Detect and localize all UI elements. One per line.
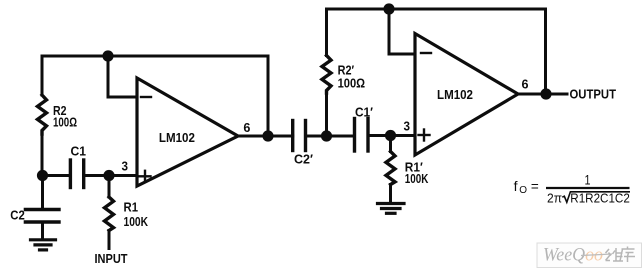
wire R1' to ground bbox=[389, 185, 392, 204]
svg-text:100K: 100K bbox=[405, 171, 429, 186]
wire inverting input U1 bbox=[108, 56, 137, 97]
capacitor C2 bbox=[25, 210, 59, 223]
U2 minus symbol bbox=[421, 52, 431, 54]
svg-text:3: 3 bbox=[404, 119, 411, 134]
node junction H output bbox=[540, 88, 551, 99]
wire feedback down stage 1 bbox=[267, 56, 270, 136]
wire C2 to ground bbox=[41, 222, 44, 239]
watermark strike line bbox=[581, 254, 612, 256]
svg-text:C1′: C1′ bbox=[355, 105, 373, 120]
resistor R2 bbox=[38, 95, 47, 134]
node junction B pin3 stage1 bbox=[103, 170, 114, 181]
wire C1 left bbox=[43, 174, 71, 177]
wire inverting input U2 bbox=[389, 9, 415, 54]
node junction E C2'-C1' bbox=[321, 130, 332, 141]
svg-text:3: 3 bbox=[122, 159, 129, 174]
wire left rail upper bbox=[41, 56, 44, 95]
wire feedback down stage 2 bbox=[544, 9, 547, 94]
node junction A top stage1 bbox=[102, 50, 113, 61]
wire top feedback stage 1 bbox=[42, 55, 268, 58]
svg-text:INPUT: INPUT bbox=[95, 251, 128, 266]
wire U1 output bbox=[238, 135, 293, 138]
svg-text:O: O bbox=[519, 185, 527, 196]
svg-text:100Ω: 100Ω bbox=[338, 76, 366, 91]
wire R1' top bbox=[389, 136, 392, 152]
svg-text:R1R2C1C2: R1R2C1C2 bbox=[570, 191, 630, 206]
svg-text:LM102: LM102 bbox=[437, 87, 473, 102]
wire stage2 rail lower bbox=[325, 93, 328, 136]
wire left rail lower bbox=[41, 134, 44, 176]
node junction G pin3 stage2 bbox=[385, 130, 396, 141]
svg-text:C2′: C2′ bbox=[294, 152, 313, 167]
wire C1' to pin 3 U2 bbox=[368, 134, 415, 137]
watermark CJK glyph ku bbox=[620, 247, 635, 263]
resistor R1 bbox=[105, 197, 114, 231]
resistor R1' bbox=[386, 152, 395, 185]
svg-text:2π: 2π bbox=[547, 191, 562, 206]
capacitor C1 bbox=[70, 160, 83, 188]
U2 plus symbol bbox=[419, 130, 430, 141]
U1 minus symbol bbox=[141, 96, 151, 98]
svg-text:f: f bbox=[514, 178, 518, 194]
ground bbox=[378, 204, 405, 214]
svg-text:100Ω: 100Ω bbox=[53, 115, 77, 130]
svg-text:6: 6 bbox=[522, 77, 529, 92]
node junction F top stage2 bbox=[383, 3, 394, 14]
wire U2 output bbox=[518, 93, 567, 96]
svg-text:C2: C2 bbox=[10, 208, 24, 223]
svg-text:C1: C1 bbox=[71, 144, 87, 159]
svg-text:100K: 100K bbox=[124, 214, 149, 229]
op-amp U1 bbox=[137, 78, 238, 186]
svg-text:=: = bbox=[531, 179, 539, 194]
wire C1 right to pin 3 bbox=[84, 174, 137, 177]
svg-text:OUTPUT: OUTPUT bbox=[570, 87, 617, 102]
capacitor C2' bbox=[293, 121, 306, 151]
ground bbox=[31, 240, 56, 250]
node junction C left rail bbox=[37, 170, 48, 181]
watermark CJK glyph wei bbox=[606, 248, 624, 261]
node junction D U1 output bbox=[262, 130, 273, 141]
op-amp U2 bbox=[415, 34, 518, 156]
svg-text:LM102: LM102 bbox=[159, 130, 195, 145]
capacitor C1' bbox=[355, 119, 369, 152]
U1 plus symbol bbox=[140, 171, 151, 182]
resistor R2' bbox=[322, 56, 331, 94]
svg-text:1: 1 bbox=[585, 171, 591, 187]
wire top feedback stage 2 bbox=[327, 8, 546, 11]
wire stage2 rail upper bbox=[325, 9, 328, 56]
wire C2' to C1' bbox=[306, 135, 355, 138]
watermark box bbox=[537, 243, 642, 268]
svg-text:6: 6 bbox=[243, 120, 250, 135]
wire R1 top bbox=[108, 176, 111, 198]
wire input stub bbox=[108, 231, 111, 249]
wire C2 stem bbox=[41, 176, 44, 209]
svg-text:R1: R1 bbox=[124, 200, 139, 215]
